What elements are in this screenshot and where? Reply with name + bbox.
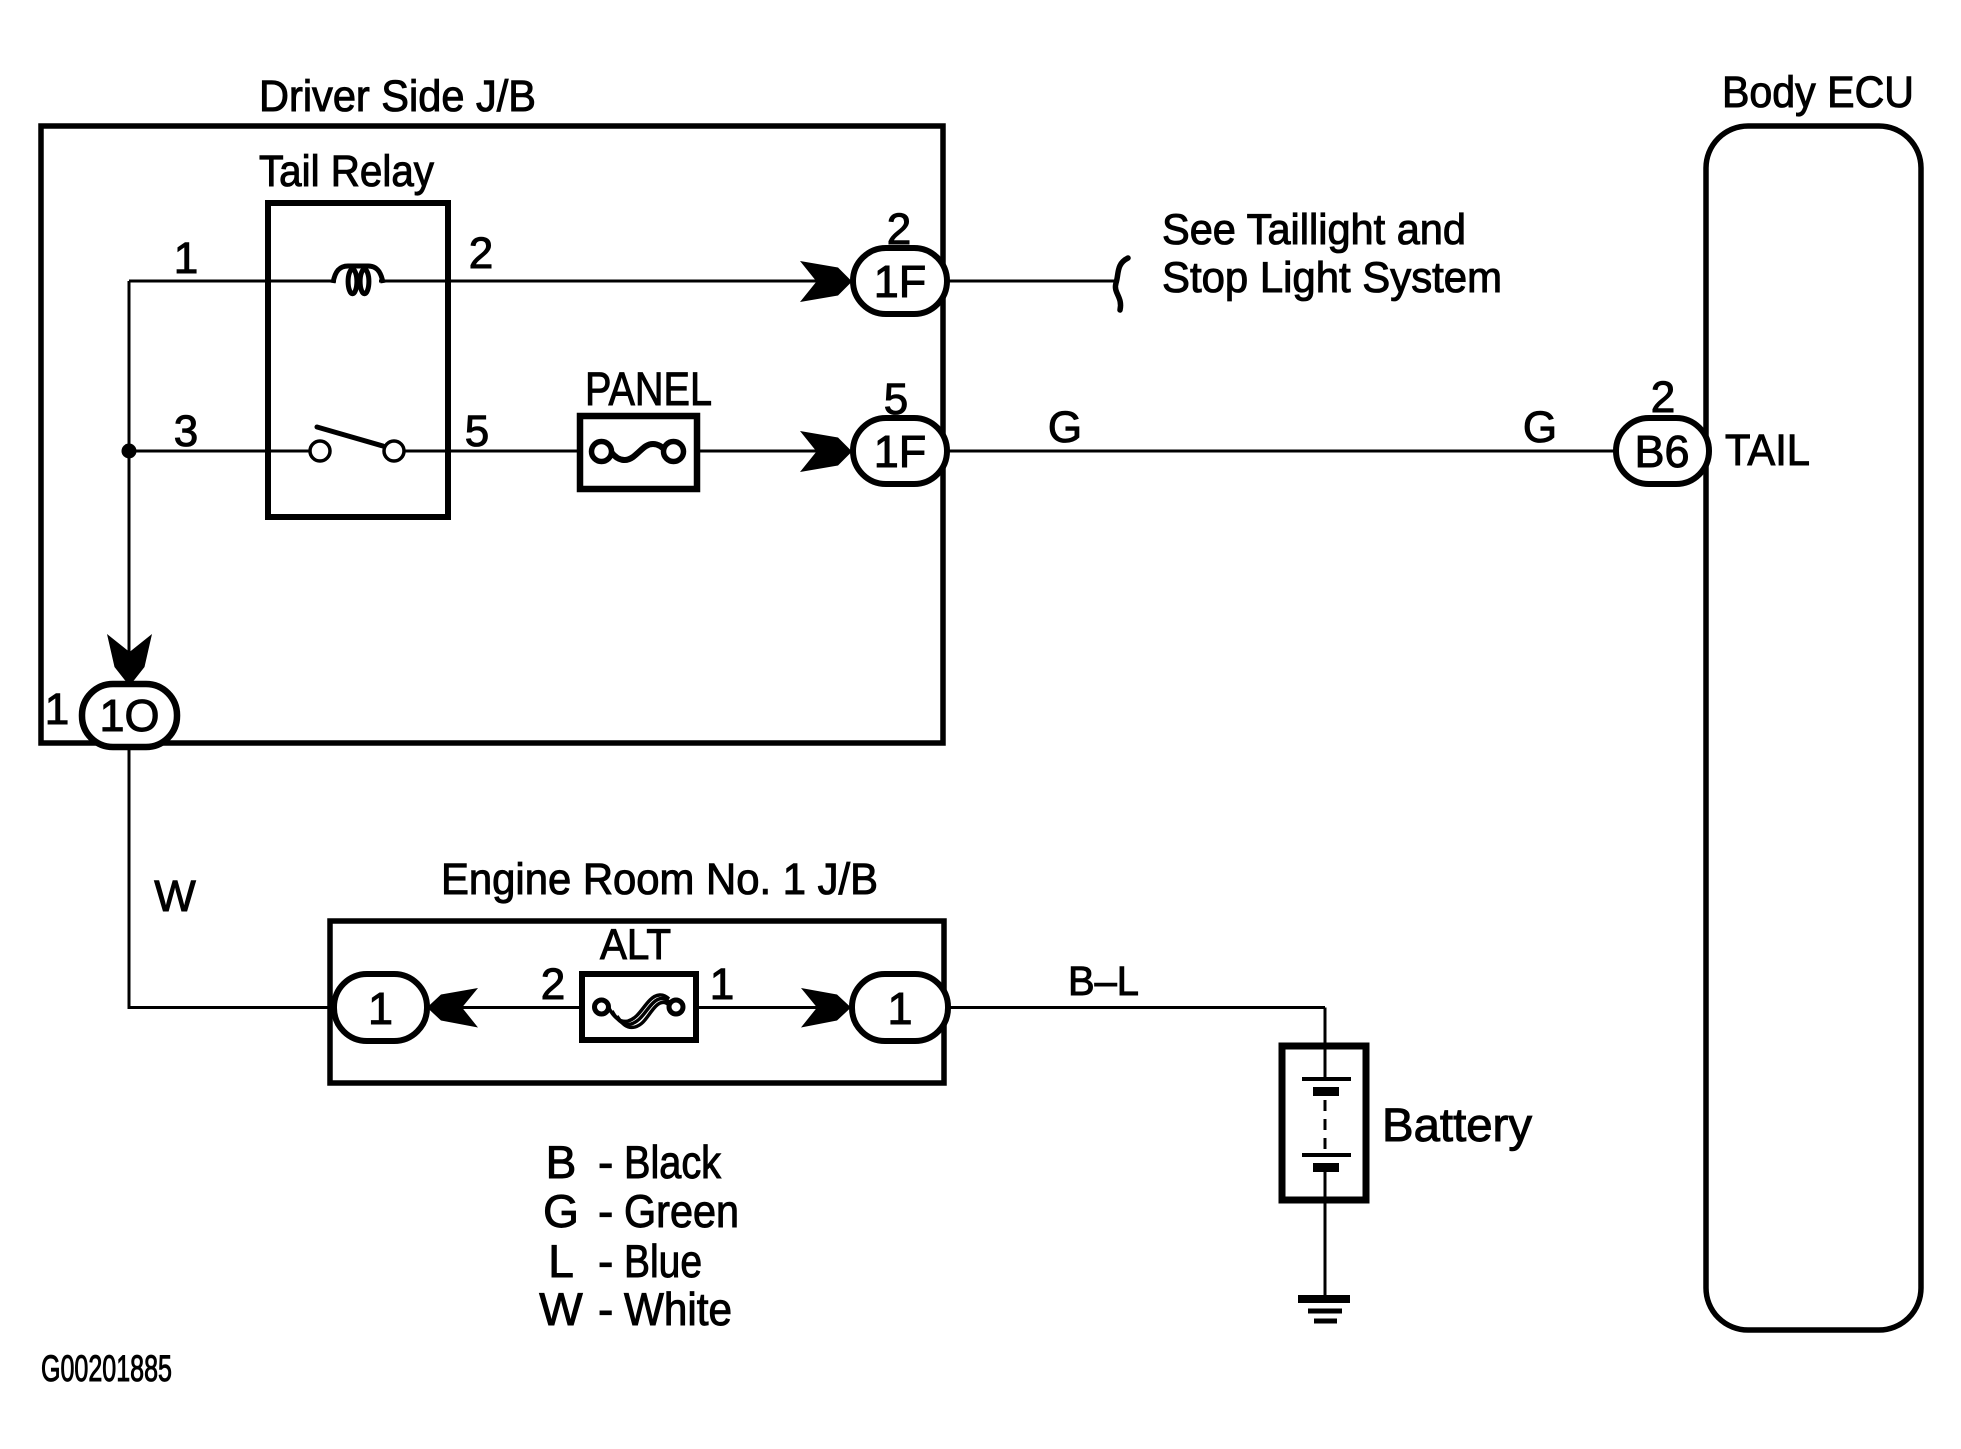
battery cell 2 plus plate bbox=[1302, 1153, 1351, 1157]
wire row1 from 1F to taillight system bbox=[947, 280, 1118, 283]
arrow down into 1O bbox=[107, 634, 152, 686]
battery cell 1 minus plate bbox=[1313, 1087, 1339, 1096]
svg-text:Stop Light System: Stop Light System bbox=[1162, 254, 1502, 302]
svg-text:B–L: B–L bbox=[1068, 958, 1139, 1004]
svg-text:1: 1 bbox=[887, 983, 912, 1034]
battery cell 2 minus plate bbox=[1313, 1163, 1339, 1172]
junction block box: Engine Room No. 1 J/B bbox=[330, 921, 944, 1083]
svg-text:2: 2 bbox=[1651, 373, 1675, 422]
wire row2 PANEL fuse to 1F connector bbox=[695, 450, 853, 453]
svg-text:W: W bbox=[539, 1283, 583, 1335]
svg-text:Tail Relay: Tail Relay bbox=[259, 147, 434, 196]
wire row2 (G wire) 1F to B6 connector bbox=[947, 450, 1618, 453]
connector 1O bbox=[82, 684, 177, 747]
fuse PANEL symbol bbox=[592, 442, 684, 462]
battery cell 1 plus plate bbox=[1302, 1077, 1351, 1081]
battery dashed link bbox=[1324, 1100, 1327, 1150]
ground symbol bbox=[1298, 1299, 1350, 1321]
wire battery to ground bbox=[1324, 1171, 1327, 1297]
svg-text:See Taillight and: See Taillight and bbox=[1162, 206, 1466, 254]
svg-text:1: 1 bbox=[174, 234, 198, 283]
wire continuation squiggle bbox=[1115, 258, 1128, 310]
svg-text:2: 2 bbox=[469, 229, 493, 278]
svg-text:1O: 1O bbox=[99, 690, 159, 741]
svg-text:ALT: ALT bbox=[600, 921, 671, 969]
svg-text:G: G bbox=[1048, 403, 1082, 452]
svg-text:1: 1 bbox=[710, 960, 734, 1009]
svg-text:1: 1 bbox=[45, 685, 69, 734]
svg-text:Green: Green bbox=[624, 1185, 739, 1237]
svg-text:White: White bbox=[624, 1283, 732, 1335]
relay box: Tail Relay bbox=[268, 203, 448, 517]
connector B6 bbox=[1616, 418, 1709, 484]
svg-text:2: 2 bbox=[541, 960, 565, 1009]
svg-text:-: - bbox=[598, 1283, 613, 1335]
wire row2 from junction to relay switch bbox=[129, 450, 311, 453]
ECU box: Body ECU bbox=[1706, 126, 1921, 1330]
svg-text:Blue: Blue bbox=[624, 1235, 702, 1287]
relay coil L1 bbox=[333, 266, 383, 294]
wire engine row: ALT fuse to connector 1 bbox=[670, 1006, 852, 1009]
svg-text:2: 2 bbox=[887, 205, 911, 254]
svg-text:-: - bbox=[598, 1136, 613, 1188]
junction block box: Driver Side J/B bbox=[41, 126, 943, 743]
fuse ALT fusible link symbol bbox=[595, 995, 684, 1027]
wire row1 from coil to 1F connector bbox=[379, 280, 853, 283]
svg-text:3: 3 bbox=[174, 407, 198, 456]
svg-text:Battery: Battery bbox=[1382, 1098, 1532, 1151]
wire (W) from connector 1O down bbox=[128, 745, 131, 1008]
wire row2 switch to PANEL fuse bbox=[404, 450, 582, 453]
svg-text:B: B bbox=[546, 1136, 577, 1188]
arrow into 1F row2 bbox=[800, 431, 852, 472]
svg-text:Black: Black bbox=[624, 1136, 722, 1188]
fuse PANEL box bbox=[580, 416, 697, 489]
svg-text:G00201885: G00201885 bbox=[41, 1348, 172, 1389]
svg-text:L: L bbox=[548, 1235, 574, 1287]
arrow into 1F row1 bbox=[800, 261, 852, 302]
svg-text:Engine Room No. 1 J/B: Engine Room No. 1 J/B bbox=[441, 855, 878, 904]
svg-text:Body ECU: Body ECU bbox=[1722, 68, 1914, 117]
svg-text:PANEL: PANEL bbox=[585, 362, 712, 415]
battery inner top wire bbox=[1324, 1049, 1327, 1079]
wire (B-L) engine J/B to battery bbox=[948, 1006, 1325, 1009]
connector 1F row1 bbox=[853, 248, 947, 314]
junction node dot bbox=[122, 444, 137, 459]
svg-text:B6: B6 bbox=[1634, 426, 1689, 477]
svg-text:-: - bbox=[598, 1185, 613, 1237]
svg-text:W: W bbox=[154, 872, 196, 921]
wire (W) horizontal to Engine Room J/B bbox=[128, 1006, 337, 1009]
wire battery drop bbox=[1324, 1008, 1327, 1050]
svg-text:1F: 1F bbox=[874, 256, 927, 307]
relay switch arm bbox=[317, 427, 383, 446]
svg-text:G: G bbox=[1523, 403, 1557, 452]
connector 1F row2 bbox=[853, 418, 947, 484]
svg-text:1: 1 bbox=[368, 983, 393, 1034]
svg-text:Driver Side J/B: Driver Side J/B bbox=[259, 72, 536, 121]
svg-text:1F: 1F bbox=[874, 426, 927, 477]
wire vertical from row1 down to connector 1O bbox=[128, 281, 131, 682]
svg-text:G: G bbox=[543, 1185, 579, 1237]
svg-text:5: 5 bbox=[884, 375, 908, 424]
arrow right into engine connector 1 bbox=[801, 988, 851, 1028]
svg-text:TAIL: TAIL bbox=[1725, 426, 1810, 475]
arrow left into engine connector 1 bbox=[427, 988, 478, 1028]
fuse ALT box bbox=[582, 974, 696, 1040]
svg-text:-: - bbox=[598, 1235, 613, 1287]
wire row1 left segment (pin1 to relay coil) bbox=[129, 280, 336, 283]
svg-text:5: 5 bbox=[465, 407, 489, 456]
connector 1 engine left bbox=[334, 974, 427, 1041]
wire engine row: connector 1 to ALT fuse bbox=[427, 1006, 615, 1009]
connector 1 engine right bbox=[852, 974, 948, 1041]
relay switch contacts bbox=[310, 441, 330, 461]
battery box bbox=[1282, 1046, 1366, 1200]
